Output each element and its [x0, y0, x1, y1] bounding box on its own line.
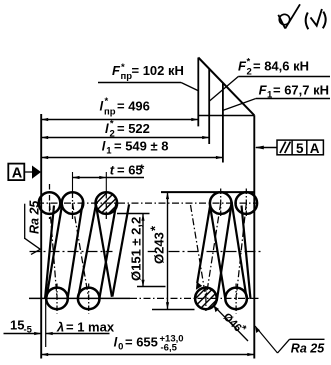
svg-text:1: 1: [106, 146, 112, 157]
svg-text:2: 2: [247, 67, 252, 78]
svg-text:Ø151 ± 2,2: Ø151 ± 2,2: [129, 217, 144, 281]
svg-text:= 522: = 522: [117, 121, 150, 136]
svg-text:l: l: [105, 121, 109, 136]
svg-text:-6,5: -6,5: [161, 343, 178, 354]
svg-text:-5: -5: [24, 325, 33, 336]
svg-text:= 84,6 кН: = 84,6 кН: [253, 59, 309, 74]
svg-text:Ra 25: Ra 25: [291, 341, 325, 355]
svg-text:5: 5: [296, 141, 304, 156]
svg-text:*: *: [105, 96, 109, 107]
svg-text:пр: пр: [121, 71, 133, 82]
svg-text:= 655: = 655: [125, 335, 158, 350]
svg-text:= 1 max: = 1 max: [66, 319, 115, 334]
svg-text:A: A: [310, 141, 320, 156]
svg-text:Ø243: Ø243: [152, 232, 167, 264]
svg-text:0: 0: [118, 342, 123, 353]
svg-text:λ: λ: [56, 319, 64, 334]
svg-text:l: l: [100, 98, 104, 113]
svg-text:A: A: [12, 165, 23, 181]
svg-text:t: t: [110, 162, 115, 177]
svg-text:l: l: [114, 335, 118, 350]
svg-text:= 102 кН: = 102 кН: [132, 63, 184, 78]
svg-text:= 496: = 496: [117, 98, 150, 113]
svg-text:пр: пр: [104, 107, 116, 118]
svg-text:Ra 25: Ra 25: [28, 200, 42, 234]
svg-text:15: 15: [10, 318, 24, 333]
svg-text:= 549 ± 8: = 549 ± 8: [114, 139, 168, 154]
svg-text:*: *: [247, 57, 251, 68]
svg-text:= 67,7 кН: = 67,7 кН: [273, 83, 329, 98]
svg-text:l: l: [102, 139, 106, 154]
